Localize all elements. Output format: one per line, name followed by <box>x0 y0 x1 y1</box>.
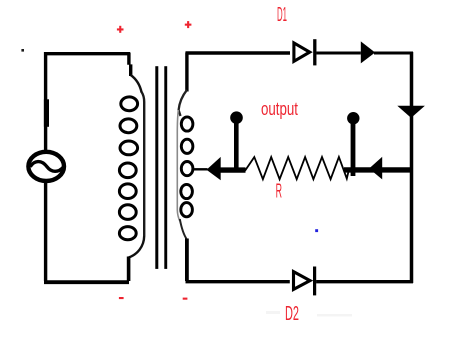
svg-text:output: output <box>261 99 298 119</box>
diode D2 <box>294 267 315 296</box>
wire primary top <box>44 52 130 55</box>
primary coil turn 7 <box>119 227 136 240</box>
transformer secondary stub bottom <box>185 239 189 282</box>
faint eraser smudge right of D2 <box>317 314 352 317</box>
current arrow top (right-pointing) <box>361 41 375 63</box>
transformer primary return line <box>142 92 145 236</box>
primary coil turn 5 <box>119 184 136 199</box>
primary coil turn 4 <box>119 163 136 178</box>
output terminal node left (dot) <box>230 111 243 124</box>
label - (secondary bottom) <box>183 298 188 300</box>
wire right bus <box>410 52 414 283</box>
transformer primary stub top <box>129 53 131 77</box>
wire D1 to arrow <box>316 51 360 54</box>
svg-text:D2: D2 <box>285 302 299 325</box>
output terminal node right (dot) <box>347 112 359 124</box>
transformer primary stub bottom <box>127 257 131 282</box>
current arrow center-right (left-pointing) <box>369 157 382 180</box>
secondary coil turn 3 (center tap) <box>181 162 193 176</box>
output terminal stub left <box>234 120 239 170</box>
stray blue dot <box>315 229 318 232</box>
transformer primary bottom curve <box>129 236 145 258</box>
wire primary left thick patch <box>44 99 49 127</box>
primary coil turn 2 <box>120 119 137 133</box>
secondary coil turn 5 <box>181 203 193 217</box>
secondary coil turn 2 <box>181 139 193 153</box>
output terminal stub right <box>351 121 356 176</box>
current arrow center-left (left-pointing) <box>207 157 221 180</box>
wire center tap to arrow <box>194 168 208 170</box>
AC source V1 <box>28 152 64 181</box>
primary coil turn 6 <box>119 205 136 220</box>
primary coil turn 1 <box>121 97 138 111</box>
faint eraser smudge left of D2 <box>266 311 280 314</box>
transformer secondary stub top <box>185 53 188 92</box>
primary coil turn 3 <box>120 141 138 155</box>
secondary coil turn 4 <box>181 184 193 198</box>
wire primary left <box>44 52 47 281</box>
wire resistor to right bus <box>344 167 413 172</box>
transformer core left bar <box>155 66 158 269</box>
current arrow right bus (down-pointing) <box>397 106 425 118</box>
transformer secondary bottom curve <box>180 219 187 240</box>
label + (secondary top) <box>185 21 192 28</box>
label - (primary bottom) <box>119 297 124 299</box>
resistor R <box>245 157 349 179</box>
diode D1 <box>294 39 315 65</box>
transformer secondary top curve <box>179 90 187 116</box>
wire primary bottom <box>44 280 129 284</box>
stray dot <box>21 49 24 52</box>
wire arrow to right bus <box>374 51 413 54</box>
wire D2 to right bus <box>316 280 413 283</box>
label + (primary top) <box>117 26 124 33</box>
svg-text:D1: D1 <box>277 3 287 26</box>
wire arrow to resistor <box>220 167 246 172</box>
wire secondary bottom to D2 <box>186 280 290 283</box>
transformer secondary return line <box>177 110 180 221</box>
secondary coil turn 1 <box>181 117 193 131</box>
transformer core right bar <box>164 66 167 269</box>
wire secondary top to D1 <box>186 51 291 54</box>
svg-text:R: R <box>276 180 282 202</box>
transformer primary top curve <box>131 75 142 93</box>
